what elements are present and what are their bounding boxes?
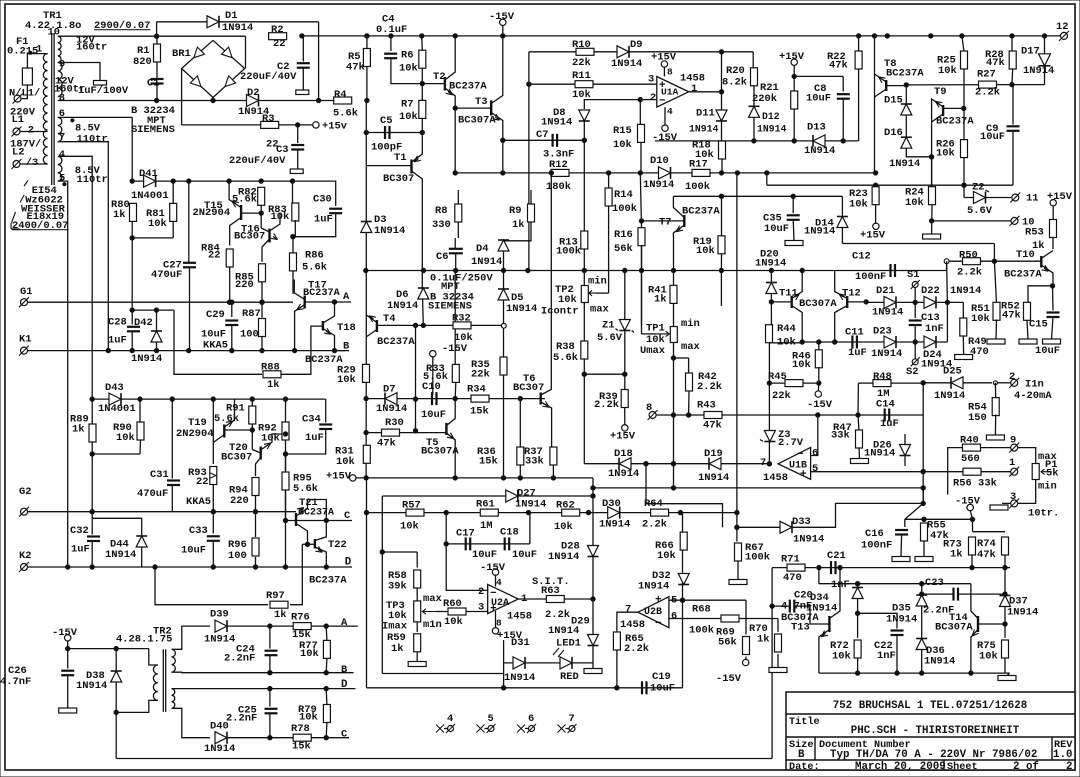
svg-text:10k: 10k bbox=[399, 111, 418, 123]
svg-text:BC307A: BC307A bbox=[421, 445, 459, 457]
svg-text:1k: 1k bbox=[267, 379, 280, 391]
svg-text:22: 22 bbox=[196, 476, 209, 488]
svg-text:1458: 1458 bbox=[620, 619, 645, 631]
svg-text:R16: R16 bbox=[614, 229, 633, 241]
svg-text:220: 220 bbox=[230, 495, 249, 507]
svg-text:1k: 1k bbox=[72, 424, 85, 436]
svg-text:D42: D42 bbox=[134, 317, 153, 329]
svg-text:C16: C16 bbox=[865, 528, 884, 540]
svg-text:BC237A: BC237A bbox=[303, 288, 341, 299]
svg-text:100k: 100k bbox=[685, 181, 710, 193]
svg-text:100k: 100k bbox=[745, 552, 770, 564]
svg-text:4-20mA: 4-20mA bbox=[1014, 390, 1052, 402]
svg-text:2.2k: 2.2k bbox=[545, 609, 570, 621]
svg-text:KKA5: KKA5 bbox=[186, 496, 211, 508]
svg-text:1N914: 1N914 bbox=[548, 551, 579, 563]
svg-text:470: 470 bbox=[970, 346, 989, 358]
svg-text:-15V: -15V bbox=[652, 132, 678, 144]
svg-text:C30: C30 bbox=[313, 194, 332, 206]
svg-text:1uF: 1uF bbox=[71, 544, 90, 556]
svg-text:1N914: 1N914 bbox=[889, 158, 920, 170]
svg-text:470uF: 470uF bbox=[137, 488, 168, 500]
svg-text:1uF: 1uF bbox=[108, 335, 127, 347]
svg-text:10k: 10k bbox=[905, 197, 924, 209]
svg-text:Z1: Z1 bbox=[602, 319, 615, 331]
svg-text:C33: C33 bbox=[189, 525, 208, 537]
svg-text:33k: 33k bbox=[831, 430, 850, 442]
svg-text:R10: R10 bbox=[572, 39, 591, 51]
svg-text:1N914: 1N914 bbox=[76, 680, 107, 692]
svg-text:T2: T2 bbox=[433, 71, 446, 83]
svg-text:1N4001: 1N4001 bbox=[131, 190, 169, 202]
svg-text:C34: C34 bbox=[302, 414, 321, 426]
svg-text:L1: L1 bbox=[12, 114, 25, 126]
svg-text:1N914: 1N914 bbox=[871, 348, 902, 360]
svg-text:560: 560 bbox=[961, 453, 980, 465]
svg-text:R44: R44 bbox=[777, 323, 796, 335]
svg-text:SIEMENS: SIEMENS bbox=[428, 301, 472, 313]
svg-text:D21: D21 bbox=[876, 285, 895, 297]
svg-text:R53: R53 bbox=[1025, 227, 1044, 239]
svg-text:10k: 10k bbox=[979, 650, 998, 662]
svg-text:10k: 10k bbox=[399, 63, 418, 75]
svg-text:BC237A: BC237A bbox=[682, 206, 720, 218]
svg-text:R97: R97 bbox=[266, 590, 285, 602]
svg-text:1k: 1k bbox=[274, 609, 287, 621]
svg-text:10uF: 10uF bbox=[806, 93, 831, 105]
svg-text:m1n: m1n bbox=[423, 619, 442, 631]
svg-text:1N914: 1N914 bbox=[506, 303, 537, 315]
svg-text:max: max bbox=[423, 593, 443, 605]
svg-text:10k: 10k bbox=[936, 148, 955, 160]
svg-text:4: 4 bbox=[447, 713, 453, 725]
svg-text:10k: 10k bbox=[336, 456, 355, 468]
svg-text:2: 2 bbox=[28, 125, 34, 137]
svg-text:2.7V: 2.7V bbox=[778, 437, 804, 449]
svg-text:C19: C19 bbox=[652, 671, 671, 683]
svg-text:R87: R87 bbox=[242, 308, 261, 320]
svg-text:1uF/100V: 1uF/100V bbox=[78, 85, 129, 97]
svg-text:C7: C7 bbox=[536, 129, 549, 141]
svg-text:10k: 10k bbox=[148, 218, 167, 230]
svg-text:R61: R61 bbox=[476, 499, 495, 511]
svg-text:N/L1/: N/L1/ bbox=[9, 88, 40, 100]
svg-text:+15v: +15v bbox=[322, 121, 348, 133]
svg-text:1N914: 1N914 bbox=[864, 448, 895, 460]
svg-text:T9: T9 bbox=[934, 86, 947, 98]
svg-text:T4: T4 bbox=[383, 313, 396, 325]
svg-text:15k: 15k bbox=[479, 456, 498, 468]
svg-text:10uF: 10uF bbox=[181, 545, 206, 557]
svg-text:C10: C10 bbox=[422, 381, 441, 393]
svg-text:10uF: 10uF bbox=[472, 549, 497, 561]
svg-text:2.2k: 2.2k bbox=[957, 266, 982, 278]
svg-text:10k: 10k bbox=[646, 334, 665, 346]
svg-text:Imax: Imax bbox=[382, 620, 408, 632]
svg-text:R48: R48 bbox=[873, 371, 892, 383]
svg-text:1nF: 1nF bbox=[877, 650, 896, 662]
svg-text:10k: 10k bbox=[695, 149, 714, 161]
svg-text:1N914: 1N914 bbox=[599, 518, 630, 530]
svg-text:R50: R50 bbox=[959, 250, 978, 262]
svg-text:D13: D13 bbox=[807, 122, 826, 134]
svg-text:D10: D10 bbox=[650, 155, 669, 167]
svg-text:min: min bbox=[588, 275, 607, 287]
svg-text:47k: 47k bbox=[703, 420, 722, 432]
svg-text:D4: D4 bbox=[476, 243, 489, 255]
svg-text:1N914: 1N914 bbox=[222, 22, 253, 34]
svg-text:R34: R34 bbox=[467, 384, 486, 396]
svg-text:6: 6 bbox=[671, 610, 677, 622]
svg-text:0.1uF/250V: 0.1uF/250V bbox=[430, 272, 493, 284]
svg-text:G2: G2 bbox=[19, 486, 32, 498]
svg-text:2.2k: 2.2k bbox=[594, 399, 619, 411]
svg-text:/3: /3 bbox=[26, 157, 39, 169]
svg-text:C31: C31 bbox=[150, 469, 169, 481]
svg-text:10uF: 10uF bbox=[764, 223, 789, 235]
svg-text:1N914: 1N914 bbox=[886, 613, 917, 625]
svg-text:10k: 10k bbox=[300, 648, 319, 660]
svg-text:C23: C23 bbox=[925, 577, 944, 589]
svg-text:T3: T3 bbox=[475, 96, 488, 108]
svg-text:1: 1 bbox=[691, 83, 697, 95]
svg-text:Typ TH/DA 70 A - 220V Nr 7986/: Typ TH/DA 70 A - 220V Nr 7986/02 bbox=[830, 749, 1037, 761]
svg-text:5.6V: 5.6V bbox=[967, 205, 993, 217]
svg-text:39k: 39k bbox=[388, 581, 407, 593]
svg-text:100k: 100k bbox=[689, 625, 714, 637]
svg-text:B: B bbox=[341, 664, 348, 676]
svg-text:BC237A: BC237A bbox=[377, 336, 415, 348]
svg-text:6: 6 bbox=[528, 713, 534, 725]
svg-text:R68: R68 bbox=[692, 603, 711, 615]
svg-text:1N914: 1N914 bbox=[950, 285, 981, 297]
svg-text:March 20, 2009: March 20, 2009 bbox=[855, 761, 946, 773]
svg-text:1N914: 1N914 bbox=[1023, 65, 1054, 77]
svg-text:5: 5 bbox=[488, 713, 494, 725]
svg-text:220uF/40V: 220uF/40V bbox=[229, 155, 286, 167]
svg-text:12: 12 bbox=[1056, 21, 1069, 33]
svg-text:220k: 220k bbox=[752, 93, 777, 105]
svg-text:1N914: 1N914 bbox=[757, 124, 787, 135]
svg-text:C14: C14 bbox=[876, 399, 895, 411]
svg-text:1k: 1k bbox=[950, 548, 963, 560]
svg-text:2.2k: 2.2k bbox=[975, 87, 1000, 99]
svg-text:1N914: 1N914 bbox=[608, 468, 639, 480]
svg-text:10k: 10k bbox=[444, 616, 463, 628]
svg-text:47k: 47k bbox=[1002, 310, 1021, 322]
svg-text:C32: C32 bbox=[70, 525, 89, 537]
svg-text:BR1: BR1 bbox=[172, 48, 191, 60]
svg-text:160tr: 160tr bbox=[76, 41, 107, 53]
svg-text:1N914: 1N914 bbox=[934, 390, 965, 402]
svg-text:SIEMENS: SIEMENS bbox=[131, 124, 175, 136]
svg-text:−: − bbox=[655, 618, 662, 630]
svg-text:BC307A: BC307A bbox=[799, 298, 837, 310]
svg-text:-15V: -15V bbox=[480, 562, 506, 574]
svg-text:220uF/40V: 220uF/40V bbox=[240, 71, 297, 83]
svg-text:T7: T7 bbox=[659, 217, 672, 229]
svg-text:R57: R57 bbox=[402, 500, 421, 512]
svg-text:R88: R88 bbox=[261, 362, 280, 374]
svg-text:22k: 22k bbox=[772, 390, 791, 402]
svg-text:47k: 47k bbox=[986, 57, 1005, 69]
svg-text:-15V: -15V bbox=[716, 673, 742, 685]
svg-text:1N914: 1N914 bbox=[204, 743, 235, 755]
svg-text:9: 9 bbox=[59, 58, 65, 70]
svg-text:10uF: 10uF bbox=[980, 131, 1005, 143]
svg-text:56k: 56k bbox=[614, 243, 633, 255]
svg-text:2.2nF: 2.2nF bbox=[226, 713, 257, 725]
svg-text:Date:: Date: bbox=[789, 762, 820, 773]
svg-text:4: 4 bbox=[496, 577, 502, 588]
svg-text:I1n: I1n bbox=[1025, 378, 1044, 390]
svg-text:D: D bbox=[345, 557, 352, 569]
svg-text:5.6k: 5.6k bbox=[553, 352, 578, 364]
svg-text:1N914: 1N914 bbox=[806, 603, 837, 615]
svg-text:752 BRUCHSAL 1 TEL.07251/12628: 752 BRUCHSAL 1 TEL.07251/12628 bbox=[833, 700, 1027, 712]
svg-text:C12: C12 bbox=[852, 251, 871, 263]
svg-text:R6: R6 bbox=[401, 50, 414, 62]
svg-text:D33: D33 bbox=[792, 516, 811, 528]
svg-text:100k: 100k bbox=[556, 245, 581, 257]
svg-text:2.2k: 2.2k bbox=[642, 518, 667, 530]
svg-text:2400/0.07: 2400/0.07 bbox=[12, 220, 68, 232]
svg-text:1458: 1458 bbox=[680, 73, 705, 85]
svg-text:R20: R20 bbox=[726, 65, 745, 77]
svg-text:Icontr: Icontr bbox=[541, 306, 579, 318]
svg-text:T10: T10 bbox=[1016, 249, 1035, 261]
svg-text:1N914: 1N914 bbox=[872, 307, 903, 319]
svg-text:470: 470 bbox=[783, 572, 802, 584]
svg-text:22k: 22k bbox=[572, 57, 591, 69]
svg-text:1N914: 1N914 bbox=[131, 353, 162, 365]
svg-text:5.6k: 5.6k bbox=[333, 108, 358, 120]
svg-text:56k: 56k bbox=[718, 636, 737, 648]
svg-text:D22: D22 bbox=[921, 285, 940, 297]
svg-text:C15: C15 bbox=[1029, 319, 1048, 331]
svg-text:6: 6 bbox=[59, 108, 65, 120]
svg-text:5k: 5k bbox=[1046, 468, 1059, 480]
svg-text:T12: T12 bbox=[842, 287, 861, 299]
svg-text:10k: 10k bbox=[271, 211, 290, 223]
svg-text:7: 7 bbox=[569, 713, 575, 725]
svg-text:KKA5: KKA5 bbox=[203, 340, 228, 352]
svg-text:Sheet: Sheet bbox=[947, 761, 978, 773]
svg-text:R43: R43 bbox=[697, 400, 716, 412]
svg-text:S2: S2 bbox=[906, 366, 919, 378]
svg-text:L2: L2 bbox=[12, 146, 25, 158]
svg-text:5.6k: 5.6k bbox=[302, 261, 327, 273]
svg-text:BC237A: BC237A bbox=[298, 508, 334, 519]
svg-text:5.6V: 5.6V bbox=[597, 332, 623, 344]
svg-text:1N914: 1N914 bbox=[793, 533, 824, 545]
svg-text:10k: 10k bbox=[849, 199, 868, 211]
svg-text:D40: D40 bbox=[210, 721, 229, 733]
svg-text:10: 10 bbox=[48, 27, 61, 39]
svg-text:1N914: 1N914 bbox=[376, 403, 407, 415]
svg-text:100: 100 bbox=[228, 550, 247, 562]
svg-text:1N914: 1N914 bbox=[638, 581, 669, 593]
svg-text:D19: D19 bbox=[704, 448, 723, 460]
svg-text:3: 3 bbox=[1010, 491, 1016, 503]
svg-text:R45: R45 bbox=[768, 371, 787, 383]
svg-text:C1: C1 bbox=[147, 77, 160, 89]
svg-text:1N914: 1N914 bbox=[504, 672, 535, 684]
svg-text:2: 2 bbox=[1066, 761, 1072, 773]
svg-text:1N914: 1N914 bbox=[924, 656, 955, 668]
svg-text:10k: 10k bbox=[613, 139, 632, 151]
svg-text:1N914: 1N914 bbox=[204, 633, 235, 645]
svg-text:D9: D9 bbox=[630, 39, 643, 51]
svg-text:R27: R27 bbox=[977, 69, 996, 81]
svg-text:1N914: 1N914 bbox=[1007, 606, 1038, 618]
svg-text:100: 100 bbox=[240, 329, 259, 341]
svg-text:BC307A: BC307A bbox=[458, 115, 496, 127]
svg-text:1N914: 1N914 bbox=[541, 117, 572, 129]
svg-text:Z2: Z2 bbox=[972, 182, 985, 194]
svg-text:1N914: 1N914 bbox=[698, 472, 729, 484]
svg-text:D17: D17 bbox=[1021, 46, 1040, 58]
svg-text:8.2k: 8.2k bbox=[722, 76, 747, 88]
svg-text:8: 8 bbox=[667, 67, 673, 78]
svg-text:R56 33k: R56 33k bbox=[953, 477, 997, 489]
svg-text:+15V: +15V bbox=[326, 471, 352, 483]
svg-text:22: 22 bbox=[273, 38, 286, 50]
svg-text:R15: R15 bbox=[613, 125, 632, 137]
svg-text:1k: 1k bbox=[391, 643, 404, 655]
svg-text:R86: R86 bbox=[305, 249, 324, 261]
svg-text:47k: 47k bbox=[346, 61, 365, 73]
svg-text:1N914: 1N914 bbox=[804, 145, 835, 157]
svg-text:5: 5 bbox=[812, 463, 818, 475]
svg-text:1N914: 1N914 bbox=[515, 499, 546, 511]
svg-text:15k: 15k bbox=[292, 741, 311, 753]
svg-text:10uF: 10uF bbox=[1035, 345, 1060, 357]
svg-text:10k: 10k bbox=[337, 374, 356, 386]
svg-text:2 of: 2 of bbox=[1013, 761, 1039, 773]
svg-text:1uF: 1uF bbox=[314, 213, 333, 225]
svg-text:220: 220 bbox=[235, 279, 254, 291]
svg-text:BC307: BC307 bbox=[234, 230, 265, 242]
svg-text:2900/0.07: 2900/0.07 bbox=[94, 20, 150, 32]
svg-text:D1: D1 bbox=[225, 10, 238, 22]
svg-text:1N914: 1N914 bbox=[548, 625, 579, 637]
svg-text:2.2nF: 2.2nF bbox=[224, 653, 255, 665]
svg-text:C29: C29 bbox=[206, 309, 225, 321]
svg-text:C28: C28 bbox=[108, 317, 127, 329]
svg-text:1k: 1k bbox=[512, 219, 525, 231]
svg-text:10k: 10k bbox=[554, 521, 573, 533]
svg-text:2.2k: 2.2k bbox=[697, 381, 722, 393]
svg-text:1k: 1k bbox=[654, 294, 667, 306]
svg-text:1N914: 1N914 bbox=[471, 256, 502, 268]
svg-text:1N914: 1N914 bbox=[804, 226, 835, 238]
svg-text:LED1: LED1 bbox=[556, 637, 581, 649]
svg-text:D25: D25 bbox=[943, 366, 962, 378]
svg-text:BC237A: BC237A bbox=[309, 575, 347, 587]
svg-text:1N914: 1N914 bbox=[105, 549, 136, 561]
svg-text:470uF: 470uF bbox=[151, 269, 182, 281]
svg-text:3: 3 bbox=[478, 602, 484, 614]
svg-text:D15: D15 bbox=[884, 95, 903, 107]
svg-text:min: min bbox=[681, 318, 700, 330]
svg-text:4: 4 bbox=[59, 149, 65, 161]
svg-text:1458: 1458 bbox=[763, 472, 788, 484]
svg-text:180k: 180k bbox=[546, 181, 571, 193]
svg-text:D: D bbox=[341, 679, 348, 691]
svg-text:9: 9 bbox=[1010, 435, 1016, 447]
svg-text:R8: R8 bbox=[435, 205, 448, 217]
svg-text:U2A: U2A bbox=[491, 598, 509, 609]
svg-text:R11: R11 bbox=[572, 70, 591, 82]
svg-text:10uF: 10uF bbox=[650, 683, 675, 695]
svg-text:10uF: 10uF bbox=[421, 409, 446, 421]
svg-text:2: 2 bbox=[1009, 371, 1015, 383]
svg-text:1N914: 1N914 bbox=[374, 225, 405, 237]
svg-text:R71: R71 bbox=[781, 554, 800, 566]
svg-text:PHC.SCH - THIRISTOREINHEIT: PHC.SCH - THIRISTOREINHEIT bbox=[851, 725, 1020, 737]
svg-text:110tr: 110tr bbox=[77, 134, 108, 146]
svg-text:+15V: +15V bbox=[860, 230, 886, 242]
svg-text:+: + bbox=[655, 595, 662, 607]
svg-text:R30: R30 bbox=[385, 417, 404, 429]
svg-text:5.6k: 5.6k bbox=[214, 413, 239, 425]
svg-text:B: B bbox=[798, 749, 805, 761]
svg-text:8: 8 bbox=[496, 617, 502, 628]
svg-text:G1: G1 bbox=[20, 286, 33, 298]
svg-text:−: − bbox=[797, 449, 804, 461]
svg-text:R76: R76 bbox=[291, 612, 310, 624]
svg-text:10k: 10k bbox=[299, 712, 318, 724]
svg-text:100nF: 100nF bbox=[855, 271, 886, 283]
svg-text:S1: S1 bbox=[907, 269, 920, 281]
svg-text:C21: C21 bbox=[827, 550, 846, 562]
svg-text:D2: D2 bbox=[247, 87, 260, 99]
svg-text:0.215: 0.215 bbox=[7, 46, 38, 58]
svg-text:1.0: 1.0 bbox=[1053, 749, 1072, 761]
svg-text:C17: C17 bbox=[456, 528, 475, 540]
svg-text:1M: 1M bbox=[480, 520, 493, 532]
svg-text:7: 7 bbox=[760, 457, 766, 469]
svg-text:11: 11 bbox=[1026, 193, 1039, 205]
svg-text:BC307A: BC307A bbox=[935, 621, 973, 633]
svg-text:R3: R3 bbox=[262, 113, 275, 125]
svg-text:1M: 1M bbox=[877, 388, 890, 400]
svg-text:R7: R7 bbox=[401, 99, 414, 111]
svg-text:Title: Title bbox=[789, 716, 820, 728]
svg-text:D11: D11 bbox=[696, 108, 715, 120]
svg-text:1k: 1k bbox=[757, 633, 770, 645]
svg-text:max: max bbox=[681, 341, 701, 353]
svg-text:10tr.: 10tr. bbox=[1028, 508, 1059, 520]
svg-text:C5: C5 bbox=[380, 115, 393, 127]
svg-text:1N914: 1N914 bbox=[611, 58, 642, 70]
svg-text:8: 8 bbox=[59, 92, 65, 104]
svg-text:10k: 10k bbox=[832, 650, 851, 662]
svg-text:5.6k: 5.6k bbox=[293, 483, 318, 495]
svg-text:TP1: TP1 bbox=[646, 323, 665, 335]
svg-text:22k: 22k bbox=[471, 369, 490, 381]
svg-text:2N2904: 2N2904 bbox=[193, 207, 231, 219]
svg-text:330: 330 bbox=[432, 219, 451, 231]
svg-text:1nF: 1nF bbox=[925, 323, 944, 335]
svg-text:1uF: 1uF bbox=[848, 347, 867, 359]
svg-text:10k: 10k bbox=[558, 294, 577, 306]
svg-text:R78: R78 bbox=[291, 723, 310, 735]
svg-text:100nF: 100nF bbox=[861, 539, 892, 551]
svg-text:4: 4 bbox=[667, 106, 673, 117]
svg-text:R40: R40 bbox=[960, 435, 979, 447]
